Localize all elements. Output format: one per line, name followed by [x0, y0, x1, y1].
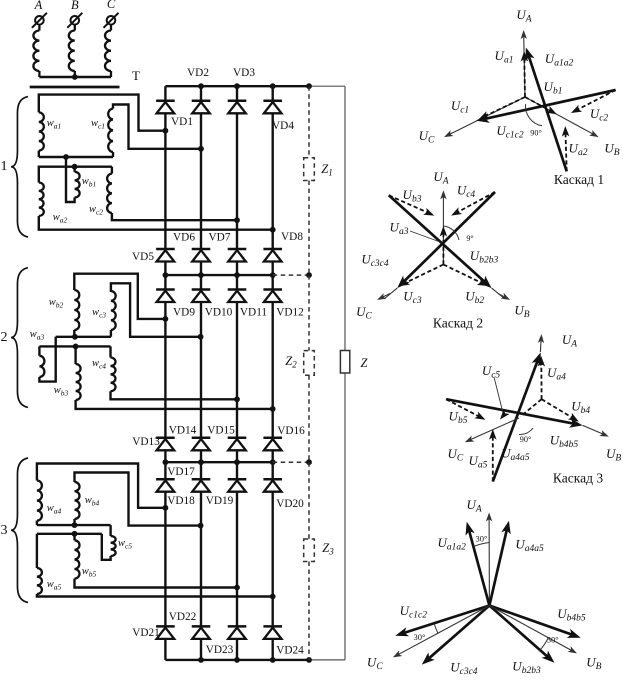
svg-text:VD8: VD8 [281, 231, 303, 243]
svg-text:30°: 30° [476, 534, 488, 544]
svg-text:VD21: VD21 [132, 627, 160, 639]
svg-text:30°: 30° [547, 635, 559, 645]
svg-text:30°: 30° [414, 632, 426, 642]
svg-text:VD20: VD20 [276, 498, 304, 510]
svg-text:1: 1 [1, 159, 8, 174]
svg-text:VD11: VD11 [240, 307, 267, 319]
svg-text:VD3: VD3 [233, 67, 255, 79]
svg-text:9°: 9° [466, 234, 473, 243]
svg-text:Каскад 1: Каскад 1 [554, 172, 604, 187]
svg-text:Каскад 3: Каскад 3 [553, 471, 603, 486]
svg-text:VD16: VD16 [277, 425, 305, 437]
svg-text:VD6: VD6 [173, 232, 195, 244]
svg-text:VD1: VD1 [171, 116, 193, 128]
svg-text:90°: 90° [530, 129, 541, 138]
svg-text:T: T [132, 68, 140, 83]
svg-text:B: B [71, 0, 79, 12]
svg-text:VD12: VD12 [276, 307, 304, 319]
svg-text:VD2: VD2 [187, 67, 209, 79]
svg-text:VD24: VD24 [276, 645, 304, 657]
svg-text:Z: Z [361, 356, 369, 370]
svg-text:VD18: VD18 [167, 495, 195, 507]
svg-text:VD15: VD15 [207, 425, 235, 437]
svg-text:Каскад 2: Каскад 2 [433, 316, 483, 331]
svg-text:VD17: VD17 [167, 466, 195, 478]
svg-text:VD22: VD22 [169, 611, 197, 623]
svg-text:VD5: VD5 [132, 251, 154, 263]
svg-text:VD7: VD7 [209, 232, 231, 244]
svg-text:VD10: VD10 [205, 307, 233, 319]
svg-text:A: A [34, 0, 43, 12]
svg-text:VD4: VD4 [272, 120, 294, 132]
svg-text:VD13: VD13 [132, 436, 160, 448]
svg-text:VD23: VD23 [206, 644, 234, 656]
svg-text:90°: 90° [520, 435, 531, 444]
svg-text:VD14: VD14 [169, 425, 197, 437]
svg-text:2: 2 [1, 330, 8, 345]
svg-text:VD9: VD9 [173, 307, 195, 319]
svg-text:VD19: VD19 [206, 495, 234, 507]
svg-text:3: 3 [1, 523, 8, 538]
svg-text:C: C [107, 0, 116, 11]
